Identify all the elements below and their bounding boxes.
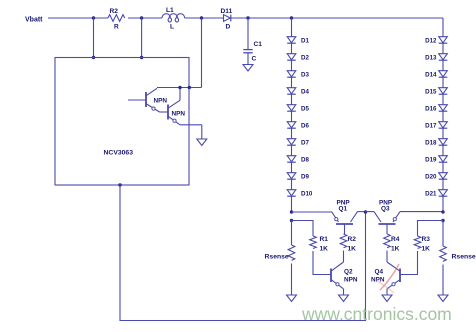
wire left node to Q1 emitter — [292, 211, 332, 213]
wire Q4 emitter to ground — [386, 289, 388, 295]
LED D9 — [287, 173, 309, 181]
LED D7 — [287, 139, 309, 147]
junction Vcc pin on IC — [92, 56, 95, 59]
junction Vbatt/Vcc node — [92, 16, 95, 19]
junction C1 tap — [246, 16, 249, 19]
LED D10 — [287, 190, 313, 198]
svg-text:Q2: Q2 — [344, 269, 353, 276]
wire R2 to Q2 collector — [343, 251, 345, 263]
svg-text:D15: D15 — [425, 89, 437, 96]
LED D3 — [287, 71, 309, 79]
svg-text:1K: 1K — [422, 246, 431, 253]
wire R4 to Q4 collector — [386, 251, 388, 263]
wire switch collector drop — [201, 18, 203, 88]
svg-text:Q4: Q4 — [375, 269, 384, 276]
svg-text:D5: D5 — [301, 106, 309, 113]
wire feedback loop — [120, 185, 366, 321]
LED D20 — [425, 173, 447, 181]
ground C1 — [243, 65, 253, 72]
junction feedback node — [364, 210, 367, 213]
IC U1 NCV3063 — [55, 58, 189, 186]
resistor R1 — [310, 236, 329, 253]
wire D11 to LED strings — [231, 17, 443, 19]
svg-text:NCV3063: NCV3063 — [104, 150, 134, 157]
ground Q2 — [339, 295, 349, 302]
svg-text:R3: R3 — [422, 236, 431, 243]
svg-text:R4: R4 — [391, 236, 400, 243]
resistor R2 — [108, 8, 125, 31]
wire left node to Rsense — [291, 221, 293, 246]
wire Q2 emitter to ground — [343, 289, 345, 295]
wire Rsense left to ground — [291, 264, 293, 296]
wire Q1 collector to node — [358, 211, 366, 213]
LED D5 — [287, 105, 309, 113]
resistor Rsense left — [265, 245, 295, 261]
wire right node to R3 — [418, 221, 444, 237]
svg-text:C: C — [252, 56, 257, 63]
svg-text:D4: D4 — [301, 89, 309, 96]
svg-text:D16: D16 — [425, 106, 437, 113]
LED D21 — [425, 190, 447, 198]
svg-text:D20: D20 — [425, 174, 437, 181]
LED D16 — [425, 105, 447, 113]
resistor R4 — [384, 234, 400, 253]
wire R1 to Q2 base — [313, 251, 331, 275]
svg-text:Vbatt: Vbatt — [25, 17, 43, 24]
junction feedback pin on IC — [118, 183, 121, 186]
junction right string bottom — [441, 210, 444, 213]
LED D1 — [287, 37, 309, 45]
svg-text:D19: D19 — [425, 157, 437, 164]
LED D13 — [425, 54, 447, 62]
LED D17 — [425, 122, 447, 130]
transistor NPN output — [160, 88, 186, 125]
svg-text:www.cntronics.com: www.cntronics.com — [301, 304, 452, 324]
wire right node to Rsense — [442, 221, 444, 247]
svg-text:R2: R2 — [348, 236, 357, 243]
wire right LED string — [442, 18, 444, 212]
resistor R2 1K — [340, 234, 356, 253]
svg-text:1K: 1K — [391, 246, 400, 253]
junction Ipk node — [140, 16, 143, 19]
LED D6 — [287, 122, 309, 130]
wire emitter to ground — [180, 125, 202, 139]
svg-text:NPN: NPN — [172, 111, 186, 118]
diode D11 — [221, 8, 233, 31]
junction switch node — [200, 16, 203, 19]
wire R3 to Q4 base — [400, 251, 418, 275]
svg-text:D10: D10 — [301, 191, 313, 198]
watermark logo red — [375, 264, 399, 293]
svg-text:R2: R2 — [110, 8, 119, 15]
svg-text:R: R — [114, 24, 119, 31]
svg-text:Q1: Q1 — [339, 206, 348, 213]
ground Q4 — [382, 295, 392, 302]
svg-text:NPN: NPN — [344, 277, 358, 284]
wire Q3 emitter to right node — [400, 211, 443, 213]
svg-text:R1: R1 — [320, 236, 329, 243]
LED D2 — [287, 54, 309, 62]
svg-text:D1: D1 — [301, 38, 309, 45]
junction Ipk pin on IC — [140, 56, 143, 59]
junction left sense node — [290, 219, 293, 222]
wire left LED string — [291, 18, 293, 212]
transistor NPN driver — [128, 88, 167, 112]
wire L1 to D11 — [185, 17, 224, 19]
transistor NPN Q2 — [331, 262, 358, 289]
svg-text:L: L — [170, 24, 174, 31]
junction left string bottom — [290, 210, 293, 213]
svg-text:D21: D21 — [425, 191, 437, 198]
transistor NPN Q4 — [371, 262, 400, 289]
svg-text:1K: 1K — [348, 246, 357, 253]
ground Rsense right — [438, 295, 448, 302]
junction left LED string top — [290, 16, 293, 19]
svg-text:D7: D7 — [301, 140, 309, 147]
LED D14 — [425, 71, 447, 79]
svg-text:D: D — [226, 24, 231, 31]
inductor L1 — [162, 7, 185, 31]
svg-text:D13: D13 — [425, 55, 437, 62]
svg-text:D8: D8 — [301, 157, 309, 164]
svg-text:Rsense: Rsense — [452, 254, 476, 261]
svg-text:C1: C1 — [254, 41, 263, 48]
svg-text:1K: 1K — [320, 246, 329, 253]
resistor Rsense right — [440, 246, 476, 261]
svg-text:D14: D14 — [425, 72, 437, 79]
wire Vbatt to R2 — [48, 17, 108, 19]
wire left node to R1 — [292, 221, 314, 237]
svg-text:D3: D3 — [301, 72, 309, 79]
LED D15 — [425, 88, 447, 96]
LED D4 — [287, 88, 309, 96]
junction right sense node — [441, 219, 444, 222]
wire R2 to L1 — [128, 17, 162, 19]
ground Rsense left — [287, 295, 297, 302]
svg-text:Rsense: Rsense — [265, 254, 289, 261]
ground switch emitter — [197, 139, 207, 146]
node Vbatt — [25, 17, 43, 24]
wire collector bus — [157, 87, 202, 89]
svg-text:D2: D2 — [301, 55, 309, 62]
svg-text:Q3: Q3 — [381, 206, 390, 213]
LED D8 — [287, 156, 309, 164]
svg-text:D17: D17 — [425, 123, 437, 130]
watermark text — [301, 304, 452, 324]
junction collector node — [178, 86, 181, 89]
transistor PNP Q3 — [374, 200, 400, 235]
resistor R3 — [414, 236, 430, 253]
transistor PNP Q1 — [332, 200, 358, 235]
wire Vcc pin drop — [93, 18, 95, 58]
LED D12 — [425, 37, 447, 45]
svg-text:D18: D18 — [425, 140, 437, 147]
wire Rsense right to ground — [442, 265, 444, 296]
LED D18 — [425, 139, 447, 147]
svg-text:NPN: NPN — [371, 277, 385, 284]
svg-text:NPN: NPN — [154, 98, 168, 105]
svg-text:D11: D11 — [221, 8, 233, 15]
wire Ipk pin drop — [141, 18, 143, 58]
wire node to Q3 — [366, 211, 375, 213]
svg-text:L1: L1 — [166, 7, 174, 14]
svg-text:D6: D6 — [301, 123, 309, 130]
LED D19 — [425, 156, 447, 164]
svg-text:D9: D9 — [301, 174, 309, 181]
junction collector at IC edge — [188, 86, 191, 89]
svg-text:D12: D12 — [425, 38, 437, 45]
capacitor C1 — [243, 18, 262, 65]
